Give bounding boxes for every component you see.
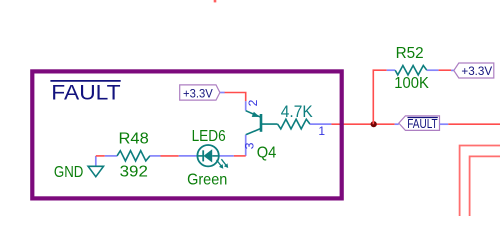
wire FAULT label to right edge <box>448 123 500 125</box>
svg-text:LED6: LED6 <box>192 128 226 145</box>
svg-text:3: 3 <box>242 142 256 149</box>
wire GND to R48 <box>96 155 105 157</box>
wire LED6 to Q4 collector <box>234 155 246 157</box>
svg-text:392: 392 <box>120 163 148 180</box>
svg-text:+3.3V: +3.3V <box>183 87 213 100</box>
svg-text:R48: R48 <box>119 131 149 148</box>
transistor Q4 <box>246 101 278 156</box>
svg-text:100K: 100K <box>394 75 429 92</box>
ground GND symbol <box>88 166 103 176</box>
svg-text:4.7K: 4.7K <box>281 103 313 121</box>
svg-text:R52: R52 <box>396 45 424 62</box>
block title overline <box>50 80 120 82</box>
resistor R52 <box>387 69 396 71</box>
power symbol +3.3V (right) <box>454 63 494 78</box>
net label FAULT <box>399 116 440 130</box>
svg-text:Green: Green <box>187 171 227 188</box>
resistor 4.7K <box>278 119 310 129</box>
junction <box>371 121 377 127</box>
svg-text:FAULT: FAULT <box>407 116 438 131</box>
svg-text:+3.3V: +3.3V <box>461 65 492 78</box>
hierarchical block border <box>32 71 341 198</box>
wire junction up to R52 <box>373 70 386 124</box>
wire R48 to LED6 <box>161 155 179 157</box>
wire junction to FAULT label <box>373 123 394 125</box>
power symbol +3.3V P-left pin <box>220 92 225 94</box>
ground GND pin <box>95 156 97 166</box>
svg-text:Q4: Q4 <box>257 144 277 161</box>
LED LED6 <box>179 145 234 169</box>
power symbol +3.3V P-right pin <box>451 69 454 71</box>
svg-text:2: 2 <box>246 99 260 106</box>
wire +3.3V to Q4 emitter <box>224 93 245 102</box>
wire R52 to +3.3V <box>439 69 451 71</box>
net label FAULT right pin <box>440 123 449 125</box>
svg-text:GND: GND <box>54 164 84 181</box>
svg-text:1: 1 <box>318 124 325 138</box>
wire 4.7K to junction <box>331 123 373 125</box>
sheet border inner corner <box>470 156 500 216</box>
net label FAULT left pin <box>395 123 399 125</box>
resistor R48 <box>105 155 118 157</box>
power symbol +3.3V (left) <box>180 85 220 100</box>
wire stub at top edge <box>214 0 217 2</box>
svg-text:FAULT: FAULT <box>51 81 120 105</box>
sheet border outer corner <box>460 146 500 217</box>
